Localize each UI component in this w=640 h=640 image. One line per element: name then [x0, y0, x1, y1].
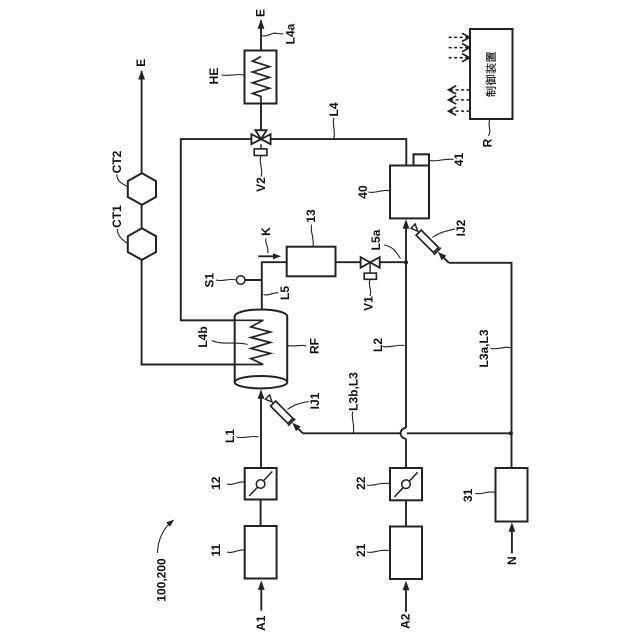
svg-text:E: E	[254, 9, 268, 17]
leader 31	[476, 492, 496, 494]
control device box	[470, 29, 513, 119]
wire between CT1 and CT2	[141, 205, 143, 228]
svg-text:13: 13	[304, 209, 318, 223]
RF internal coil (L4b)	[181, 320, 271, 364]
wire HE to V2 valve	[260, 104, 262, 131]
leader CT1	[117, 229, 127, 244]
leader L5a	[384, 245, 401, 259]
leader IJ1	[288, 402, 310, 410]
leader arrow 100,200	[158, 522, 172, 554]
dashed signal output arrow 3	[450, 110, 470, 112]
heat exchanger HE	[245, 51, 277, 104]
svg-text:IJ1: IJ1	[308, 392, 322, 409]
wire L3a from junction to injector IJ2	[449, 263, 512, 434]
wire: exhaust line to E through CT1 CT2	[142, 260, 264, 365]
leader L1	[237, 436, 259, 437]
wire valve V1 to junction (L5a)	[380, 261, 406, 263]
svg-text:S1: S1	[203, 273, 217, 288]
reformer tank RF	[235, 310, 288, 383]
dashed signal output arrow 2	[450, 99, 470, 101]
svg-text:V1: V1	[362, 296, 376, 311]
wire box 13 to valve V1	[336, 261, 361, 263]
wire junction to box 40	[405, 222, 407, 262]
catalyst CT1	[128, 228, 156, 260]
svg-text:22: 22	[354, 476, 368, 490]
wire junction to box 31	[511, 433, 513, 468]
svg-text:RF: RF	[308, 338, 322, 354]
svg-text:L4b: L4b	[196, 326, 210, 347]
arrowhead into box 40	[403, 219, 410, 229]
control device text 制御装置	[486, 87, 496, 97]
wire sensor S1 stub	[245, 279, 262, 281]
leader 22	[367, 483, 390, 485]
V1 valve actuator	[369, 262, 371, 273]
svg-text:L5: L5	[278, 286, 292, 300]
leader L4b	[212, 341, 248, 345]
svg-text:100,200: 100,200	[155, 558, 169, 602]
svg-text:IJ2: IJ2	[454, 219, 468, 236]
catalyst CT2	[128, 173, 156, 205]
HE heating element zigzag	[253, 57, 270, 104]
svg-text:L2: L2	[371, 338, 385, 352]
box 21	[390, 527, 422, 580]
wire HE to E arrow (line L4a)	[260, 20, 262, 50]
wire L2 hop over L3b	[401, 428, 406, 439]
svg-text:40: 40	[356, 185, 370, 199]
valve V1	[361, 257, 380, 268]
junction node L3a/L3b/31	[509, 431, 513, 435]
leader L3b	[352, 412, 353, 433]
arrowhead A2 into box 21	[403, 581, 410, 591]
svg-text:L4a: L4a	[284, 23, 298, 44]
dashed signal input arrow 1	[449, 36, 469, 38]
svg-text:L4: L4	[327, 102, 341, 116]
leader 40	[369, 190, 391, 192]
wire A1 inlet	[260, 583, 262, 611]
svg-text:11: 11	[209, 544, 223, 557]
leader CT2	[117, 175, 128, 187]
svg-text:L1: L1	[223, 429, 237, 443]
svg-text:A1: A1	[254, 615, 268, 631]
wire box 21 to pump 22	[405, 500, 407, 526]
leader S1	[216, 279, 236, 280]
injector IJ1	[263, 394, 306, 437]
wire box 11 to pump 12	[260, 500, 262, 527]
wire L4b from valve V2 to RF coil inlet	[181, 139, 263, 320]
arrowhead E left	[138, 70, 145, 80]
pump 22	[390, 468, 422, 500]
sensor S1	[236, 276, 245, 285]
svg-text:31: 31	[461, 488, 475, 502]
wire L5 to box 13	[262, 261, 287, 263]
arrowhead A1 into box 11	[258, 580, 265, 590]
wire L5 from RF top	[261, 261, 263, 310]
wire L4 from valve V2 to box 40	[271, 139, 407, 165]
arrowhead E top	[258, 19, 265, 29]
leader 21	[367, 550, 390, 552]
arrowhead into RF bottom	[258, 389, 265, 399]
wire L1 from box 12 to RF bottom	[260, 392, 262, 468]
leader HE	[222, 74, 245, 77]
leader 41	[430, 159, 454, 161]
svg-text:L3b,L3: L3b,L3	[347, 372, 361, 411]
svg-text:41: 41	[452, 153, 466, 167]
leader 12	[227, 482, 245, 485]
leader IJ2	[433, 229, 456, 238]
wire CT2 to E arrow	[141, 71, 143, 173]
leader L4	[333, 118, 334, 139]
leader L2	[383, 345, 405, 347]
leader 13	[311, 225, 313, 247]
leader V2	[260, 156, 262, 177]
svg-text:21: 21	[354, 543, 368, 557]
svg-text:12: 12	[209, 476, 223, 490]
dashed signal input arrow 2	[449, 47, 469, 49]
svg-text:K: K	[259, 227, 273, 236]
svg-text:N: N	[505, 556, 519, 565]
junction node (L5a/L2/box40 feed)	[404, 260, 408, 264]
pump 12 symbol	[249, 472, 272, 497]
box 11	[245, 526, 277, 579]
three-way valve V2	[251, 130, 270, 144]
arrowhead N into box 31	[508, 522, 515, 532]
leader L5	[264, 293, 279, 295]
leader 11	[227, 550, 245, 553]
box 13	[287, 247, 336, 277]
svg-text:V2: V2	[254, 177, 268, 192]
svg-text:A2: A2	[399, 613, 413, 629]
leader RF	[287, 344, 306, 347]
wire N inlet	[511, 525, 513, 553]
wire L2 upper segment	[405, 263, 407, 428]
leader L4a	[262, 33, 284, 36]
leader V1	[369, 280, 370, 297]
svg-text:CT2: CT2	[110, 150, 124, 173]
leader R	[489, 119, 491, 136]
svg-text:L3a,L3: L3a,L3	[477, 329, 491, 367]
flow direction arrow K	[258, 255, 275, 257]
svg-text:L5a: L5a	[369, 229, 383, 250]
box 40	[390, 166, 429, 219]
RF tank bottom cap	[235, 376, 288, 388]
leader L3a	[491, 347, 511, 349]
V2 valve actuator	[260, 144, 262, 149]
dashed signal input arrow 3	[449, 57, 469, 59]
svg-text:HE: HE	[207, 68, 221, 85]
box 31	[496, 468, 528, 522]
wire L3b to injector IJ1	[303, 432, 401, 434]
svg-text:E: E	[134, 59, 148, 67]
pump 22 symbol	[395, 472, 418, 497]
box 41	[414, 154, 430, 165]
pump 12	[245, 468, 277, 500]
injector IJ2	[409, 223, 452, 266]
svg-text:CT1: CT1	[110, 205, 124, 228]
dashed signal output arrow 1	[450, 89, 470, 91]
wire L3b right segment to junction	[407, 432, 511, 434]
wire A2 inlet	[405, 584, 407, 613]
leader K	[266, 239, 268, 254]
wire L2 lower segment	[405, 439, 407, 468]
svg-text:R: R	[481, 138, 495, 147]
